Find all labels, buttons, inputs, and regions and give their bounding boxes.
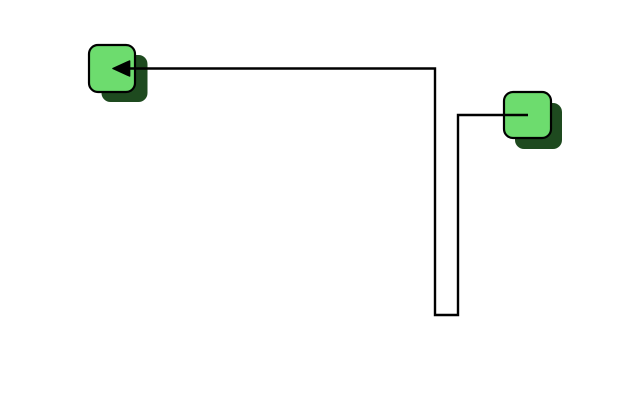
right node box: [504, 92, 551, 138]
wire: [128, 69, 528, 316]
left node box: [89, 45, 135, 92]
arrowhead: [113, 61, 130, 76]
left node shadow: [102, 55, 148, 102]
right node shadow: [515, 103, 562, 149]
